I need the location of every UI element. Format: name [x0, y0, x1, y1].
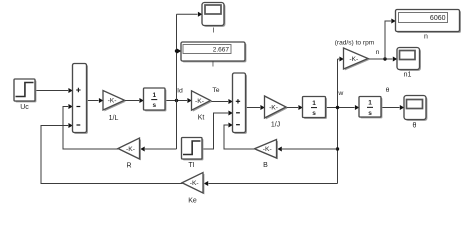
svg-text:1/L: 1/L: [109, 115, 119, 122]
svg-text:1/J: 1/J: [271, 122, 280, 129]
svg-text:w: w: [337, 90, 343, 97]
svg-text:6060: 6060: [430, 15, 446, 22]
svg-text:θ: θ: [413, 123, 417, 130]
svg-text:-K-: -K-: [263, 146, 272, 153]
svg-text:B: B: [263, 162, 268, 169]
svg-text:-K-: -K-: [195, 98, 204, 105]
svg-text:n1: n1: [404, 72, 412, 79]
svg-text:n: n: [424, 34, 428, 41]
svg-text:I: I: [212, 62, 214, 69]
svg-text:-K-: -K-: [126, 146, 135, 153]
svg-text:Te: Te: [212, 87, 219, 94]
svg-text:Kt: Kt: [198, 115, 205, 122]
svg-text:s: s: [312, 110, 316, 117]
svg-text:I: I: [213, 28, 215, 35]
svg-text:1: 1: [152, 92, 156, 99]
svg-text:1: 1: [312, 100, 316, 107]
svg-text:1: 1: [368, 100, 372, 107]
svg-text:-K-: -K-: [108, 98, 117, 105]
svg-text:s: s: [368, 110, 372, 117]
svg-text:-K-: -K-: [269, 104, 278, 111]
svg-text:n: n: [376, 49, 380, 56]
svg-text:(rad/s) to rpm: (rad/s) to rpm: [335, 40, 375, 47]
svg-text:R: R: [126, 163, 131, 170]
svg-text:Id: Id: [177, 88, 183, 95]
svg-text:Uc: Uc: [20, 104, 29, 111]
svg-text:s: s: [152, 102, 156, 109]
svg-text:θ: θ: [386, 87, 390, 94]
svg-text:2.667: 2.667: [213, 46, 230, 53]
svg-text:Ke: Ke: [188, 198, 197, 205]
svg-text:TI: TI: [188, 162, 194, 169]
svg-text:-K-: -K-: [349, 56, 358, 63]
svg-text:-K-: -K-: [190, 180, 199, 187]
